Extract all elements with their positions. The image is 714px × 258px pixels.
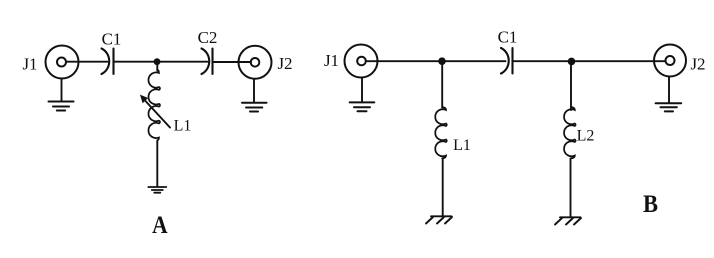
svg-text:J2: J2 (690, 55, 705, 74)
wire J2 body to ground (circuit B) (668, 77, 670, 103)
svg-text:A: A (152, 211, 167, 239)
wire L1 to ground (circuit A) (156, 141, 158, 187)
wire node A1 down to L1 (circuit A) (156, 62, 158, 71)
wire C1 to node A1 to C2 (circuit A) (114, 61, 208, 63)
wire node B2 down to L2 (circuit B) (570, 61, 572, 110)
capacitor C2 (circuit A) (202, 49, 213, 75)
ground under J1 (circuit B) (350, 102, 375, 111)
ground under J1 (circuit A) (49, 102, 74, 111)
chassis ground under L1 (circuit B) (426, 216, 452, 223)
wire J1 body to ground (circuit B) (361, 78, 363, 103)
junction node B1 (circuit B) (438, 57, 446, 65)
svg-text:C1: C1 (498, 28, 518, 47)
inductor L2 (circuit B) (564, 107, 576, 158)
chassis ground under L2 (circuit B) (555, 217, 581, 224)
svg-text:B: B (643, 191, 658, 218)
inductor L1 (circuit B) (435, 107, 447, 158)
wire J2 body to ground (circuit A) (253, 79, 255, 103)
ground under L1 (circuit A) (148, 187, 166, 193)
wire J1 pin to C1 (circuit A) (66, 61, 108, 63)
wire node B1 down to L1 (circuit B) (441, 61, 443, 107)
variable-adjust arrow of L1 (circuit A) (140, 95, 170, 128)
svg-text:C2: C2 (198, 28, 218, 47)
wire node B2 to J2 pin (circuit B) (572, 60, 666, 62)
wire node B1 to C1 (circuit B) (442, 60, 506, 62)
svg-text:C1: C1 (102, 30, 122, 49)
capacitor C1 (circuit B) (501, 48, 513, 74)
svg-text:J1: J1 (324, 51, 339, 70)
svg-text:L2: L2 (577, 128, 595, 145)
svg-text:L1: L1 (453, 137, 471, 154)
inductor L1 (circuit A) (148, 70, 159, 140)
connector J1 (circuit B) (345, 45, 378, 78)
svg-text:J1: J1 (22, 55, 37, 74)
wire C1 to node B2 (circuit B) (513, 60, 572, 62)
ground under J2 (circuit A) (242, 103, 267, 112)
connector J1 (circuit A) (46, 46, 79, 79)
junction node B2 (circuit B) (568, 58, 576, 66)
svg-text:J2: J2 (277, 54, 292, 73)
capacitor C1 (circuit A) (102, 49, 114, 75)
wire J1 pin to node B1 (circuit B) (366, 60, 442, 62)
junction node A1 (circuit A) (154, 58, 161, 65)
connector J2 (circuit B) (654, 45, 686, 77)
wire L2 to chassis ground (circuit B) (570, 159, 572, 218)
wire C2 to J2 pin (circuit A) (213, 61, 252, 63)
connector J2 (circuit A) (239, 46, 272, 79)
svg-text:L1: L1 (174, 118, 192, 135)
wire J1 body to ground (circuit A) (61, 79, 63, 102)
wire L1 to chassis ground (circuit B) (442, 159, 444, 217)
ground under J2 (circuit B) (656, 103, 682, 111)
